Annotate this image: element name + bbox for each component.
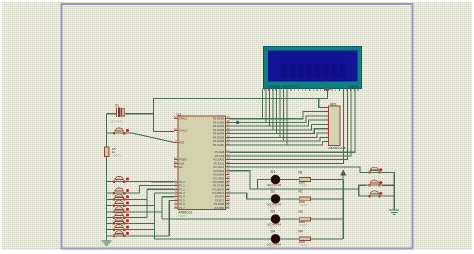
svg-text:P2.3/A11: P2.3/A11 [214, 161, 225, 165]
wire button SW7 to stair [127, 222, 155, 224]
svg-text:P3.7/RD: P3.7/RD [214, 206, 224, 210]
svg-text:P3.4/T0: P3.4/T0 [215, 195, 225, 199]
wire LED D2 to R2 [280, 198, 299, 200]
power diamond node below LCD [325, 87, 331, 92]
wire button SW5 to stair [127, 211, 162, 213]
svg-text:R4: R4 [299, 230, 303, 234]
wire RST button to rail [107, 132, 112, 134]
svg-text:<TEXT>: <TEXT> [299, 204, 309, 207]
svg-text:R1: R1 [299, 170, 303, 174]
svg-text:P1.3: P1.3 [179, 191, 185, 195]
svg-text:P0.5/AD5: P0.5/AD5 [213, 135, 225, 139]
svg-text:<TEXT>: <TEXT> [112, 155, 122, 158]
wire button SW8 to stair [127, 229, 155, 231]
push button SW8 (left column) [111, 224, 129, 230]
wire P2.5 feed to LED D1 (jog) [230, 171, 359, 189]
svg-text:P1.2: P1.2 [179, 187, 185, 191]
svg-text:P3.1/TXD: P3.1/TXD [213, 184, 224, 188]
svg-text:P2.1/A9: P2.1/A9 [215, 154, 225, 158]
ground symbol left [102, 241, 112, 245]
svg-text:RESPACK-8: RESPACK-8 [329, 146, 346, 150]
svg-text:D1: D1 [271, 170, 276, 174]
push button A (right) [367, 167, 383, 173]
stair wire vertical V3 [154, 193, 156, 239]
P2 control wires from U1 to LCD RS/RW/E pins [230, 89, 355, 164]
junction node on P0.1 wire [236, 121, 239, 124]
U1 left pin names [179, 117, 187, 210]
wire to button B [359, 184, 367, 186]
wire button SW9 to stair [127, 235, 169, 237]
wire button A to ground vertical [382, 172, 394, 210]
wire diagonal to RST pin [127, 133, 174, 142]
svg-text:AT89C51: AT89C51 [178, 211, 192, 215]
wire button SW7 to ground rail [107, 222, 112, 224]
svg-text:P2.0/A8: P2.0/A8 [215, 150, 225, 154]
svg-text:D4: D4 [271, 229, 276, 233]
wire button SW1 to ground rail [107, 181, 112, 183]
stair wire vertical V2 [146, 189, 148, 217]
U1 left pin stubs and numbers [174, 115, 178, 208]
svg-text:R5: R5 [112, 147, 116, 151]
svg-text:P2.5/A13: P2.5/A13 [214, 169, 225, 173]
svg-text:P0.3/AD3: P0.3/AD3 [213, 128, 225, 132]
LED D3 [271, 215, 280, 224]
stair wire P1.1 horizontal [140, 185, 175, 187]
wire rail to crystal left [107, 113, 117, 115]
svg-text:P3.2/INT0: P3.2/INT0 [213, 187, 225, 191]
push button SW2 (left column) [111, 188, 129, 194]
U1 right pin names [213, 117, 225, 210]
resistor R2 [299, 197, 310, 201]
wire R2 to VCC rail [310, 198, 343, 200]
svg-text:P2.4/A12: P2.4/A12 [214, 165, 225, 169]
microcontroller U1 (AT89C51) [178, 116, 226, 210]
svg-text:P0.4/AD4: P0.4/AD4 [213, 132, 225, 136]
stair wire P1.2 horizontal [147, 188, 174, 190]
wire button SW5 to ground rail [107, 211, 112, 213]
wire button SW6 to stair [127, 217, 147, 219]
svg-text:P1.6: P1.6 [179, 202, 185, 206]
svg-text:P0.1/AD1: P0.1/AD1 [213, 120, 225, 124]
svg-text:P1.0: P1.0 [179, 180, 185, 184]
push button B (right) [367, 180, 383, 186]
svg-text:EA: EA [179, 165, 183, 169]
wire to button C [359, 195, 367, 197]
P0 bus wires from U1 to LCD data pins and RP1 [230, 112, 329, 145]
svg-text:XTAL1: XTAL1 [179, 117, 187, 121]
wire button SW3 to ground rail [107, 198, 112, 200]
wire R3 to VCC rail [310, 218, 343, 220]
svg-text:XTAL2: XTAL2 [179, 129, 187, 133]
wire button SW2 to ground rail [107, 192, 112, 194]
LED D2 [271, 195, 280, 204]
svg-text:<TEXT>: <TEXT> [299, 185, 309, 188]
resistor R4 [299, 237, 310, 241]
stair wire vertical V5 [168, 200, 170, 235]
svg-text:RP1: RP1 [330, 102, 336, 106]
wire branch up to LED D1 [258, 180, 272, 189]
resistor R1 [299, 178, 310, 182]
push button RST (near crystal) [111, 128, 129, 134]
wire button SW4 to stair [127, 205, 155, 207]
wire from crystal net to LCD power node and RP1 common pin [153, 99, 318, 132]
svg-text:P3.6/WR: P3.6/WR [214, 202, 225, 206]
wire crystal right to vertical riser [125, 113, 153, 115]
svg-text:VSS VDD VEE RS RW E: VSS VDD VEE RS RW E [268, 84, 299, 88]
svg-text:P0.7/AD7: P0.7/AD7 [213, 143, 225, 147]
wire riser to XTAL2 pin [153, 131, 174, 133]
wire VCC vertical rail collecting R1-R4 [342, 180, 344, 239]
U1 right pin stubs and numbers [226, 115, 231, 208]
svg-text:<TEXT>: <TEXT> [299, 224, 309, 227]
ground rail on left [106, 114, 108, 147]
svg-text:P1.4: P1.4 [179, 195, 185, 199]
wire R1 to VCC rail [310, 179, 343, 181]
crystal X1 [117, 107, 125, 117]
svg-text:CRYSTAL: CRYSTAL [110, 120, 123, 124]
svg-text:<TEXT>: <TEXT> [178, 215, 188, 218]
wire button SW9 to ground rail [107, 235, 112, 237]
resistor R5 (vertical) [104, 147, 108, 157]
svg-text:R3: R3 [299, 210, 303, 214]
svg-text:D2: D2 [271, 190, 276, 194]
ground symbol right [389, 210, 399, 214]
svg-text:R2: R2 [299, 190, 303, 194]
wire LED D3 to R3 [280, 218, 299, 220]
svg-text:LM016L: LM016L [349, 84, 360, 88]
push button SW4 (left column) [111, 200, 129, 206]
push button SW5 (left column) [111, 207, 129, 213]
wire split to right buttons B and C [358, 185, 360, 196]
resistor pack RP1 [325, 106, 340, 146]
wire button SW8 to ground rail [107, 229, 112, 231]
svg-text:<TEXT>: <TEXT> [268, 246, 278, 249]
power arrow VCC [341, 170, 346, 179]
wire P2.4 feed to right button A [230, 167, 367, 172]
wire button SW4 to ground rail [107, 205, 112, 207]
push button SW7 (left column) [111, 218, 129, 224]
wire R4 to VCC rail [310, 238, 343, 240]
svg-text:P3.3/INT1: P3.3/INT1 [213, 191, 225, 195]
svg-text:P0.0/AD0: P0.0/AD0 [213, 117, 225, 121]
stair wire P1.3 horizontal [155, 192, 174, 194]
svg-text:X1: X1 [115, 104, 119, 108]
svg-text:P1.1: P1.1 [179, 184, 185, 188]
resistor R3 [299, 217, 310, 221]
wire stair V3 long feed to LED D4 [155, 238, 272, 240]
push button SW6 (left column) [111, 212, 129, 218]
wire P3.3 feed to LED D2 [230, 193, 272, 199]
wire button C to ground vertical [382, 195, 394, 197]
svg-text:<TEXT>: <TEXT> [299, 244, 309, 247]
svg-text:P0.6/AD6: P0.6/AD6 [213, 139, 225, 143]
stair wire vertical V1 [139, 186, 141, 194]
LCD display LCD1 (LM016L) [264, 47, 362, 89]
svg-text:P0.2/AD2: P0.2/AD2 [213, 124, 225, 128]
svg-text:U1: U1 [177, 112, 182, 116]
sheet border frame [62, 4, 413, 249]
svg-text:PSEN: PSEN [179, 158, 186, 162]
svg-text:P3.0/RXD: P3.0/RXD [213, 180, 225, 184]
push button SW1 (left column) [111, 176, 129, 182]
wire button SW3 to stair [127, 198, 147, 200]
LED D1 [271, 175, 280, 184]
svg-text:P2.6/A14: P2.6/A14 [214, 173, 225, 177]
LED D4 [271, 234, 280, 243]
wire LED D1 to R1 [280, 179, 299, 181]
svg-text:P1.5: P1.5 [179, 198, 185, 202]
svg-text:ALE: ALE [179, 161, 184, 165]
stair wire vertical V4 [161, 197, 163, 219]
svg-text:RST: RST [179, 140, 185, 144]
push button SW9 (left column) [111, 231, 129, 237]
svg-text:D3: D3 [271, 210, 276, 214]
svg-text:P2.2/A10: P2.2/A10 [214, 158, 225, 162]
stair wire P1.4 horizontal [162, 196, 174, 198]
wire stair V4 long feed to LED D3 [162, 218, 271, 220]
wire button B to ground vertical [382, 184, 394, 186]
wire button SW1 to P1.0 [127, 181, 174, 183]
LCD data pin drop wires to P0 bus [263, 89, 288, 145]
push button SW3 (left column) [111, 194, 129, 200]
stair wire P1.5 horizontal [169, 199, 174, 201]
svg-text:P2.7/A15: P2.7/A15 [214, 176, 225, 180]
svg-text:P3.5/T1: P3.5/T1 [215, 198, 225, 202]
wire LED D4 to R4 [280, 238, 299, 240]
svg-text:P1.7: P1.7 [179, 206, 185, 210]
push button C (right) [367, 191, 383, 197]
wire button SW6 to ground rail [107, 217, 112, 219]
LCD pin stubs [265, 89, 358, 91]
wire button SW2 to stair [127, 192, 140, 194]
